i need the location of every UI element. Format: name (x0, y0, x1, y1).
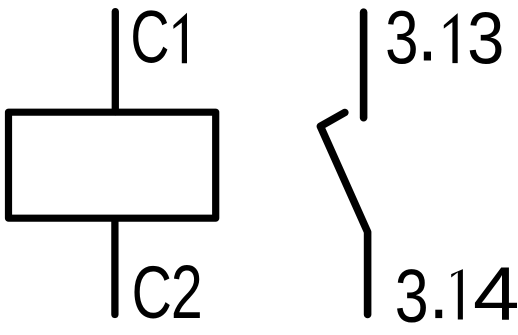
svg-text:3: 3 (467, 0, 504, 79)
svg-text:3: 3 (385, 0, 418, 80)
label C2 (132, 250, 203, 335)
wire coil top terminal (112, 12, 119, 112)
label 3.14 (395, 251, 518, 335)
contact blade (NO contact) (320, 113, 367, 315)
svg-text:C: C (132, 250, 172, 334)
svg-text:C: C (130, 0, 169, 79)
label 3.13 (385, 0, 504, 80)
wire contact top terminal 3.13 (360, 12, 368, 118)
coil K1 (9, 112, 216, 218)
svg-text:3: 3 (395, 254, 429, 335)
svg-text:4: 4 (473, 251, 518, 335)
svg-text:2: 2 (171, 250, 203, 335)
label C1 (130, 0, 187, 79)
wire coil bottom terminal (111, 219, 118, 315)
